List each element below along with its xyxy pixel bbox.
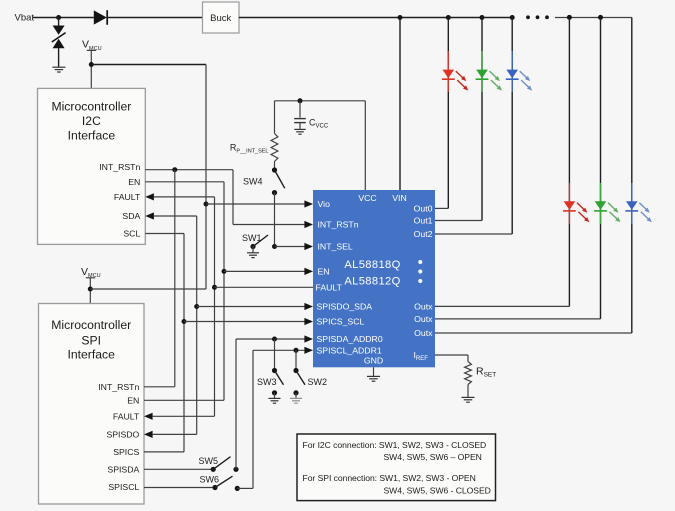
wire EN I2C out <box>145 181 224 183</box>
arrow SPICS_SCL pin <box>304 318 313 325</box>
ground below TVS <box>52 66 65 68</box>
resistor R_P__INT_SEL <box>271 134 278 162</box>
LED D3 red <box>443 70 455 79</box>
wire EN to SPI <box>144 399 224 401</box>
node ADDR0 branch <box>272 337 277 342</box>
node SPICS_SCL branch <box>182 319 187 324</box>
wire FAULT SPI <box>153 415 215 417</box>
wire V_MCU stub <box>90 50 92 88</box>
wire Outx1 <box>435 305 569 307</box>
svg-text:EN: EN <box>318 267 330 277</box>
resistor R_SET <box>465 362 472 385</box>
svg-text:FAULT: FAULT <box>114 192 141 202</box>
svg-text:For SPI connection: SW1, SW2,: For SPI connection: SW1, SW2, SW3 - OPEN <box>303 473 476 483</box>
svg-text:For I2C connection: SW1, SW2,: For I2C connection: SW1, SW2, SW3 - CLOS… <box>303 440 487 450</box>
svg-text:Vbat: Vbat <box>15 13 35 24</box>
svg-text:VCC: VCC <box>358 193 376 203</box>
svg-text:Outx: Outx <box>414 302 433 312</box>
svg-text:SW2: SW2 <box>308 377 328 387</box>
wire SCL I2C out <box>145 233 184 235</box>
svg-text:INT_RSTn: INT_RSTn <box>99 162 140 172</box>
wire V_MCU stub 2 <box>89 278 91 304</box>
switch SW1 <box>250 244 255 249</box>
wire RSET to ground <box>467 385 469 398</box>
wire SW6 up to ADDR1 <box>237 487 253 489</box>
svg-text:FAULT: FAULT <box>316 283 343 293</box>
svg-text:GND: GND <box>364 356 383 366</box>
wire IREF to RSET <box>435 354 468 356</box>
wire INT_RSTn to SPI <box>174 170 176 387</box>
svg-text:AL58812Q: AL58812Q <box>344 275 400 287</box>
wire SPICS SPI out <box>144 451 184 453</box>
svg-text:Vio: Vio <box>318 199 331 209</box>
wire Out1 <box>435 220 482 222</box>
op-amp driver IC AL58818Q/AL58812Q body <box>313 190 435 367</box>
wire VIN drop <box>399 18 401 191</box>
LED D5 blue <box>506 70 518 79</box>
arrow SPISDO_SDA pin <box>304 303 313 310</box>
switch SW5 <box>211 467 216 472</box>
wire C_VCC rail <box>275 100 366 102</box>
LED D8 blue <box>626 201 638 210</box>
LED D7 green <box>595 201 607 210</box>
arrow FAULT into I2C <box>145 193 154 200</box>
ground below SW1 <box>247 252 259 254</box>
node V_MCU junction <box>89 62 94 67</box>
wire resistor to SW4 <box>274 162 276 171</box>
svg-text:SW1: SW1 <box>242 233 262 243</box>
wire VCC drop <box>364 101 366 190</box>
ground below SW3 <box>269 397 281 399</box>
wire D1 to Buck <box>107 17 202 19</box>
wire LED2 green segment <box>481 51 483 92</box>
svg-text:Interface: Interface <box>67 348 115 362</box>
node EN branch <box>222 269 227 274</box>
svg-text:VIN: VIN <box>392 193 406 203</box>
arrow SPISCL_ADDR1 pin <box>304 347 313 354</box>
wire rail to resistor <box>274 101 276 134</box>
arrow EN pin <box>304 268 313 275</box>
wire Outx3 <box>435 332 632 334</box>
wire SPISCL SPI out <box>144 487 215 489</box>
node LED string n-2 <box>567 15 572 20</box>
LED D6 red <box>564 201 576 210</box>
svg-text:INT_RSTn: INT_RSTn <box>98 382 139 392</box>
wire FAULT I2C <box>154 196 215 198</box>
wire SW4 to INT_SEL <box>274 193 276 247</box>
wire SW3 to ground <box>274 393 276 398</box>
wire LED1 column <box>447 18 449 209</box>
wire SPICS_SCL into IC <box>184 321 305 323</box>
wire LEDn column <box>631 18 633 334</box>
svg-text:AL58818Q: AL58818Q <box>344 259 400 271</box>
node ADDR1 branch <box>294 348 299 353</box>
ground below IC <box>367 375 380 377</box>
svg-text:INT_SEL: INT_SEL <box>318 242 353 252</box>
node INT_RSTn split <box>172 167 177 172</box>
note box switch settings <box>297 434 496 501</box>
svg-text:Outx: Outx <box>414 328 433 338</box>
arrow Vio pin <box>304 200 313 207</box>
wire SW2 to ground <box>295 393 297 398</box>
arrow INT_SEL pin <box>304 243 313 250</box>
svg-text:SPISDO: SPISDO <box>106 430 139 440</box>
wire V_MCU 2 horizontal <box>90 288 206 290</box>
svg-text:Out0: Out0 <box>414 204 433 214</box>
svg-text:SW6: SW6 <box>200 474 220 484</box>
node INT_SEL corner <box>272 244 277 249</box>
LED D4 green <box>476 70 488 79</box>
svg-text:Out2: Out2 <box>414 229 433 239</box>
wire LED2 column <box>481 18 483 221</box>
switch SW2 <box>293 368 298 373</box>
svg-text:EN: EN <box>128 177 140 187</box>
svg-text:Microcontroller: Microcontroller <box>51 318 131 332</box>
svg-text:SW4, SW5, SW6 - CLOSED: SW4, SW5, SW6 - CLOSED <box>384 485 491 495</box>
arrow SDA into I2C <box>145 212 154 219</box>
block Buck converter <box>203 2 240 33</box>
svg-text:SW4, SW5, SW6 – OPEN: SW4, SW5, SW6 – OPEN <box>384 452 482 462</box>
wire SPISDA SPI out <box>144 468 213 470</box>
node SPISDO_SDA branch <box>194 304 199 309</box>
svg-text:SPISDA_ADDR0: SPISDA_ADDR0 <box>317 334 383 344</box>
wire Vbat to diode D1 <box>33 17 94 19</box>
switch SW4 <box>272 167 277 172</box>
svg-text:SPICS_SCL: SPICS_SCL <box>317 317 365 327</box>
arrow SPISDO into SPI <box>144 431 153 438</box>
node C_VCC junction <box>298 98 303 103</box>
wire EN into IC <box>224 270 305 272</box>
wire LEDn1 column <box>600 18 602 319</box>
svg-text:SPISCL_ADDR1: SPISCL_ADDR1 <box>317 346 382 356</box>
wire LED3 blue segment <box>511 51 513 92</box>
svg-text:SPICS: SPICS <box>113 447 139 457</box>
node Vbat junction <box>56 15 61 20</box>
wire ADDR1 to SW2 <box>295 350 297 370</box>
node Vio branch <box>204 202 209 207</box>
node LED string n-1 <box>598 15 603 20</box>
block Microcontroller SPI Interface <box>39 304 145 505</box>
svg-text:SW3: SW3 <box>257 377 277 387</box>
wire FAULT from IC <box>215 286 314 288</box>
arrow SPISDA_ADDR0 pin <box>304 335 313 342</box>
wire GND pin <box>373 367 375 376</box>
node LED string 1 <box>446 15 451 20</box>
ground below C_VCC <box>294 128 306 130</box>
ellipsis outputs <box>418 260 422 264</box>
node FAULT branch <box>212 285 217 290</box>
wire FAULT vertical <box>214 197 216 416</box>
node V_MCU junction 2 <box>88 287 93 292</box>
wire LED1 red segment <box>447 51 449 92</box>
switch SW3 <box>272 368 277 373</box>
svg-text:SCL: SCL <box>123 229 140 239</box>
svg-text:Microcontroller: Microcontroller <box>51 99 131 113</box>
switch SW6 <box>212 485 217 490</box>
wire Out2 <box>435 233 512 235</box>
svg-text:FAULT: FAULT <box>113 412 140 422</box>
wire SCL vertical <box>183 234 185 452</box>
wire LEDn2 red segment <box>568 183 570 224</box>
wire SW1 to ground <box>252 247 254 253</box>
diode D1 series <box>94 10 107 24</box>
wire top rail right segment <box>555 17 632 19</box>
svg-text:SW5: SW5 <box>199 456 219 466</box>
node VIN branch <box>398 15 403 20</box>
wire LEDn2 column <box>568 18 570 307</box>
LED D8 blue segment <box>631 183 633 224</box>
wire top rail Buck to LED strings <box>239 17 512 19</box>
capacitor C_VCC <box>299 101 301 118</box>
svg-text:I2C: I2C <box>82 114 101 128</box>
wire INT_SEL into IC <box>275 246 306 248</box>
svg-text:SDA: SDA <box>122 211 140 221</box>
wire Vio column vertical <box>205 65 207 289</box>
wire V_MCU to Vio column <box>91 64 206 66</box>
wire LED3 column <box>511 18 513 235</box>
svg-text:INT_RSTn: INT_RSTn <box>318 220 359 230</box>
wire SDA I2C <box>154 215 197 217</box>
wire Outx2 <box>435 318 601 320</box>
wire Vio into IC <box>206 203 305 205</box>
arrow INT_RSTn pin <box>304 221 313 228</box>
arrow FAULT into SPI <box>144 413 153 420</box>
svg-text:SW4: SW4 <box>243 177 263 187</box>
svg-text:Out1: Out1 <box>414 216 433 226</box>
wire LEDn1 green segment <box>600 183 602 224</box>
svg-text:SPI: SPI <box>81 334 101 348</box>
svg-text:SPISDA: SPISDA <box>107 465 139 475</box>
node LED string 3 <box>510 15 515 20</box>
svg-text:Outx: Outx <box>414 314 433 324</box>
wire INT_RSTn I2C out <box>145 169 233 171</box>
wire EN vertical <box>223 182 225 400</box>
wire SW5 up to ADDR0 <box>235 339 237 469</box>
ground below RSET <box>462 396 475 398</box>
svg-text:Interface: Interface <box>68 128 116 142</box>
svg-text:SPISDO_SDA: SPISDO_SDA <box>317 302 373 312</box>
svg-text:EN: EN <box>127 396 139 406</box>
block Microcontroller I2C Interface <box>38 88 146 244</box>
wire SDA vertical <box>196 216 198 434</box>
svg-text:Buck: Buck <box>210 13 231 24</box>
wire SPISDO SPI <box>153 433 197 435</box>
wire Out0 <box>435 207 448 209</box>
ellipsis more LED strings <box>526 15 530 19</box>
TVS diode D2 (bidirectional zener to ground) <box>58 18 60 26</box>
wire ADDR0 to SW3 <box>274 339 276 371</box>
node LED string 2 <box>480 15 485 20</box>
svg-text:SPISCL: SPISCL <box>108 482 139 492</box>
wire INT_RSTn drop to IC <box>232 170 234 225</box>
wire SPISDO_SDA into IC <box>197 306 305 308</box>
ground below SW2 <box>290 397 302 399</box>
